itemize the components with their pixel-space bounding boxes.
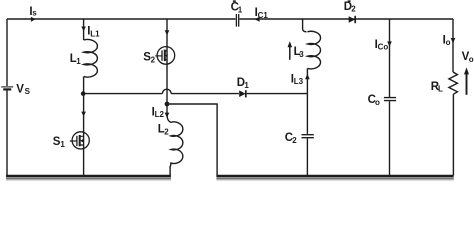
svg-text:1: 1 [244, 81, 249, 90]
transistor S1 [72, 132, 89, 149]
resistor RL [449, 72, 458, 94]
svg-text:L3: L3 [294, 77, 304, 86]
inductor L1 [84, 40, 98, 78]
arrow Is [31, 17, 36, 22]
svg-text:1: 1 [76, 57, 81, 66]
wire top rail [7, 18, 453, 20]
inductor L2 [167, 104, 183, 176]
wire Co branch vertical top [389, 19, 391, 97]
svg-text:C1: C1 [258, 11, 269, 20]
battery VS [1, 86, 13, 88]
arrow IL3 up on wire [305, 74, 310, 79]
wire middle rail hop to D1 [171, 93, 239, 95]
capacitor Co [384, 98, 396, 101]
svg-text:2: 2 [292, 136, 297, 145]
diode D2 [349, 16, 355, 23]
svg-text:1: 1 [60, 140, 65, 149]
svg-text:s: s [32, 9, 37, 18]
svg-text:2: 2 [164, 127, 169, 136]
svg-text:L1: L1 [90, 30, 100, 39]
svg-text:L2: L2 [155, 110, 165, 119]
svg-text:3: 3 [299, 50, 304, 59]
svg-text:Co: Co [378, 43, 389, 52]
svg-text:L: L [438, 84, 443, 93]
capacitor C1 [236, 14, 238, 27]
wire L1 bottom lead [83, 77, 85, 94]
arrow Io [451, 38, 456, 44]
wire L3 top lead [303, 19, 307, 32]
wire Co branch vertical bottom [389, 101, 391, 175]
arrow IL1 [81, 27, 86, 32]
label L1 [70, 53, 81, 66]
inductor L3 [307, 31, 320, 69]
diode D1 [239, 90, 245, 97]
label S2 [143, 51, 155, 64]
svg-text:1: 1 [238, 5, 243, 14]
wire C2 branch vertical top [306, 94, 308, 134]
label L2 [158, 123, 169, 136]
wire L3 bottom lead [306, 68, 308, 93]
label Io [443, 34, 451, 47]
svg-text:o: o [375, 98, 380, 107]
label S1 [53, 136, 66, 149]
svg-text:2: 2 [151, 56, 156, 65]
wire S2 branch vertical [166, 19, 168, 104]
wire S1 branch vertical [83, 94, 85, 176]
node B junction dot (S2/L2/jumper) [165, 102, 170, 107]
wire L1 branch drop [83, 19, 85, 40]
label ICo [375, 39, 389, 52]
arrow Vo up [466, 73, 468, 95]
svg-text:V: V [16, 83, 24, 95]
svg-text:S: S [25, 87, 31, 96]
label Is [29, 6, 37, 18]
arrow IL2 [165, 113, 170, 118]
label C2 [285, 132, 297, 145]
label RL [431, 81, 443, 94]
label IC1 [255, 7, 269, 20]
wire C2 branch vertical bottom [306, 139, 308, 176]
arrow IC1 [255, 17, 260, 22]
label L3 with up arrow [289, 46, 291, 60]
wire bottom-right rail [216, 175, 453, 177]
wire bottom-left rail [6, 175, 171, 177]
label IL2 [152, 106, 165, 119]
label VS [16, 83, 30, 96]
capacitor C2 [302, 135, 314, 138]
label Co [368, 94, 380, 107]
wire right branch vertical top [452, 19, 454, 72]
wire jumper from node B to bottom-right rail [167, 104, 217, 176]
node A junction dot (L1/S1/middle wire) [81, 91, 86, 96]
bottom rail shadow fades [6, 177, 454, 180]
arrow into S1 [81, 112, 86, 117]
label Vo [462, 51, 474, 64]
wire middle rail D1 cathode to C2 node [247, 93, 308, 95]
wire middle rail left of hop [83, 93, 162, 95]
wire left vertical (source branch) [6, 19, 8, 176]
label D1 [237, 77, 250, 90]
label C1 with bar [231, 0, 243, 14]
label IL1 [87, 26, 100, 39]
arrow into S2 [165, 30, 170, 35]
wire right branch vertical bottom [452, 94, 454, 175]
svg-text:2: 2 [351, 5, 356, 14]
transistor S2 [157, 47, 175, 65]
arrow ICo [387, 41, 392, 46]
wire crossover hop [162, 89, 171, 93]
svg-text:o: o [469, 55, 474, 64]
label IL3 [291, 73, 304, 86]
svg-text:o: o [446, 38, 451, 47]
label D2 with bar [344, 0, 356, 13]
